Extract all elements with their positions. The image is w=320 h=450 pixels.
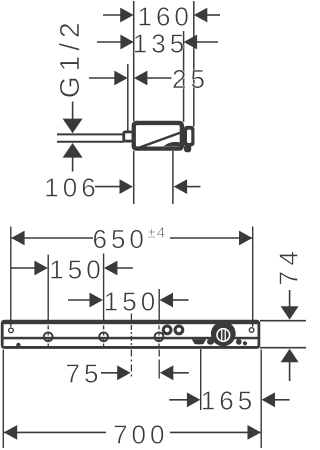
dim 150a right tail	[117, 267, 133, 269]
unit blob on diagonal	[164, 142, 181, 146]
pipe lower line	[57, 141, 124, 143]
dim 74 up arrow	[281, 349, 299, 362]
dim 25 leader tail	[89, 77, 115, 79]
dim 650 right arrow	[239, 231, 252, 246]
svg-text:150: 150	[104, 286, 159, 316]
bar left bottom dot	[16, 343, 20, 347]
dial right foot	[236, 339, 242, 345]
pipe thickness dim upper stem	[72, 102, 74, 120]
svg-text:G1/2: G1/2	[54, 17, 85, 98]
bar left screw hole	[9, 328, 14, 333]
unit body	[132, 121, 184, 151]
crosshair 2 circle	[99, 332, 108, 341]
dim 74 bottom extension line	[260, 347, 306, 349]
crosshair 1 circle	[44, 332, 53, 341]
crosshair 3 dashed line below bar	[158, 350, 160, 380]
thermostat dial disc	[211, 321, 236, 346]
dim 700 left extension	[2, 350, 4, 449]
dim 135 right tail	[197, 41, 218, 43]
dim 650 left arrow	[11, 231, 24, 246]
pipe thickness dim up arrow	[63, 143, 83, 158]
svg-text:25: 25	[172, 64, 209, 94]
pipe upper line	[57, 133, 124, 135]
dim 650 right extension stub inside bar	[252, 324, 254, 327]
dim 75 right tail	[173, 372, 189, 374]
dim 74 down arrow	[281, 306, 299, 319]
bar center dashed line inside	[130, 325, 132, 347]
svg-text:160: 160	[138, 2, 193, 32]
dim 150a left extension	[47, 255, 49, 321]
dim 700 line right segment	[170, 431, 261, 433]
dim 74 lower stem	[289, 362, 291, 381]
dim 106 right tail	[187, 186, 201, 188]
crosshair 3 circle	[155, 332, 164, 341]
dim 150a right arrow	[104, 261, 117, 276]
dim 150b right extension	[158, 289, 160, 321]
dim 650 line left segment	[11, 237, 93, 239]
dim 75 left arrow	[117, 365, 130, 380]
thermostat dial slit 2	[225, 330, 226, 341]
dim 135 right arrow	[184, 35, 197, 50]
bar center dashed line above	[130, 314, 132, 320]
below-unit extension left	[133, 151, 135, 204]
extension line B (handle front face)	[193, 1, 195, 127]
dim 25 right tail	[147, 77, 172, 79]
thermostat dial center	[218, 330, 229, 341]
svg-text:165: 165	[201, 385, 256, 415]
bar center dashed line below	[130, 350, 132, 380]
thermostat dial white ring	[216, 328, 230, 342]
extension line D (wall plane)	[127, 64, 129, 135]
dim 165 right tail	[275, 399, 290, 401]
svg-text:150: 150	[49, 255, 104, 285]
dial left foot	[207, 339, 214, 345]
dim 135 left tail	[97, 41, 121, 43]
dim 165 left tail	[169, 399, 187, 401]
dim 106 left tail	[95, 186, 120, 188]
select button 1	[162, 325, 173, 336]
dim 74 upper stem	[289, 290, 291, 307]
dim 75 right arrow	[160, 365, 173, 380]
dim 25 right arrow	[134, 71, 147, 86]
dim 700 right arrow	[248, 425, 261, 440]
unit handle lever foot	[184, 145, 191, 153]
pipe thickness dim lower stem	[72, 157, 74, 172]
extension line C (body front face)	[183, 31, 185, 122]
dim 650 right extension line	[252, 227, 254, 327]
dim 650 left extension stub inside bar	[10, 324, 12, 327]
dim 106 left arrow	[120, 179, 133, 194]
dim 700 left arrow	[4, 425, 17, 440]
thermostat dial slit 1	[221, 330, 222, 341]
dim 74 top extension line	[260, 320, 306, 322]
unit left protrusion	[122, 131, 134, 143]
bar inner horizontal line	[4, 337, 258, 340]
extension line A (unit back face)	[133, 1, 135, 121]
dim 650 left extension line	[10, 227, 12, 327]
svg-text:74: 74	[274, 246, 304, 286]
bar right screw hole	[249, 328, 254, 333]
below-unit extension right	[172, 151, 174, 204]
dim 150a left tail	[12, 267, 37, 269]
dim 150a right extension	[103, 254, 105, 321]
dim 135 left arrow	[120, 35, 133, 50]
dim 150b left tail	[68, 299, 90, 301]
dim 160 right arrow	[194, 8, 207, 23]
dim 150b right arrow	[160, 293, 173, 308]
dim 150b left arrow	[90, 293, 103, 308]
dim 150b right tail	[173, 299, 189, 301]
dim 165 left extension	[200, 349, 202, 410]
hose outlet trapezoid	[192, 339, 206, 344]
select button 2	[174, 325, 185, 336]
bar inner face	[4, 324, 258, 346]
svg-text:700: 700	[113, 420, 168, 450]
dim 165 left arrow	[187, 392, 200, 407]
crosshair 3 centerline	[158, 326, 160, 348]
dim 165 right arrow	[262, 392, 275, 407]
dim 160 right tail	[207, 14, 220, 16]
svg-text:650: 650	[93, 224, 148, 254]
dim 700 line left segment	[4, 431, 106, 433]
dim 25 left arrow	[114, 71, 127, 86]
dim 150a left arrow	[34, 261, 47, 276]
dim 165 right extension / bar end line	[260, 350, 262, 449]
dim 650 line right segment	[170, 237, 253, 239]
dim 75 left tail	[101, 372, 118, 374]
svg-text:135: 135	[133, 29, 188, 59]
svg-text:106: 106	[44, 173, 99, 203]
bar right bottom dot	[243, 341, 247, 345]
unit diagonal line	[134, 132, 184, 150]
dim 106 right arrow	[174, 179, 187, 194]
dim 160 left tail	[103, 14, 121, 16]
pipe thickness dim down arrow	[63, 119, 83, 134]
svg-text:75: 75	[66, 359, 103, 389]
svg-text:±4: ±4	[148, 225, 167, 242]
unit right handle	[184, 126, 195, 147]
bar outer body	[1, 320, 261, 349]
dim 160 left arrow	[120, 8, 133, 23]
crosshair 1 centerline	[47, 326, 49, 348]
crosshair 2 centerline	[103, 326, 105, 348]
